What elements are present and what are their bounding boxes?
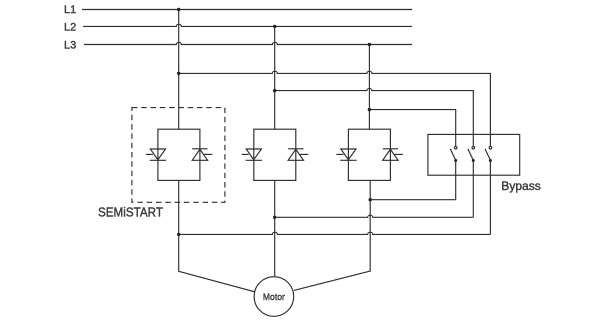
svg-text:L3: L3 (64, 39, 76, 51)
svg-text:L2: L2 (64, 21, 76, 33)
svg-text:Bypass: Bypass (501, 179, 541, 193)
svg-text:Motor: Motor (263, 292, 285, 303)
svg-text:L1: L1 (64, 4, 76, 16)
svg-text:SEMiSTART: SEMiSTART (98, 204, 163, 219)
